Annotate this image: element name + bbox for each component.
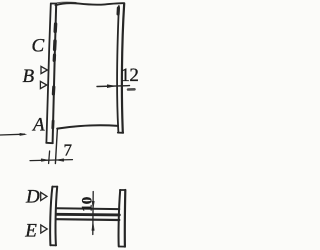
left plate top cap (51, 3, 56, 5)
smudge under 12 (128, 88, 135, 91)
right plate (12mm) left edge (117, 6, 119, 132)
web middle thick line (57, 213, 120, 216)
svg-text:E: E (24, 221, 37, 242)
left flange right edge (56, 187, 58, 246)
leader line for A (0, 133, 25, 136)
weld bead B on left plate (53, 41, 57, 50)
weld symbol triangle D (41, 192, 47, 200)
left plate bottom cap (46, 142, 53, 144)
web bottom line (57, 218, 120, 221)
arrow right of 7 dim (56, 159, 63, 162)
weld bead on left plate y90 (52, 87, 56, 94)
bottom horizontal edge (57, 125, 118, 128)
extension tick left of 7 dim (49, 151, 50, 164)
left plate (7mm) left edge (46, 4, 50, 143)
web top line (57, 207, 120, 210)
svg-text:A: A (31, 115, 45, 136)
right flange left edge (119, 190, 121, 246)
right plate bottom cap (118, 132, 123, 134)
arrow left of 7 dim (41, 159, 48, 162)
weld bead C on left plate (54, 24, 58, 32)
left flange top cap (52, 186, 57, 188)
right flange bottom cap (119, 246, 125, 248)
arrow lower of 10 dim (92, 222, 94, 231)
weld symbol triangle E (41, 225, 47, 233)
weld symbol triangle B upper (41, 66, 47, 73)
arrow upper of 10 dim (92, 201, 94, 208)
left flange bottom cap (50, 244, 56, 246)
svg-text:7: 7 (64, 141, 73, 160)
right plate right edge (122, 3, 124, 132)
weld symbol triangle B lower (40, 81, 46, 88)
weld bead on right plate (116, 8, 120, 14)
svg-text:10: 10 (79, 197, 95, 212)
dimension line 12 (97, 85, 130, 88)
weld bead on left plate y124 (51, 121, 54, 128)
svg-text:12: 12 (121, 65, 139, 86)
right flange top cap (120, 189, 125, 191)
left plate right edge (53, 4, 57, 143)
svg-text:C: C (32, 35, 45, 56)
svg-text:D: D (25, 187, 40, 208)
top horizontal edge (56, 3, 124, 5)
right flange right edge (124, 190, 127, 247)
svg-text:B: B (23, 66, 35, 87)
arrowhead of A leader (20, 133, 27, 135)
extension line down from bottom edge corner (55, 129, 57, 164)
bottom figure: left flange left edge (50, 187, 52, 246)
arrow of 12 dim (107, 85, 115, 88)
dimension line 10 vertical (92, 192, 94, 235)
top edge overdraw stroke (57, 1, 76, 4)
weld bead on left plate y56 (53, 55, 56, 61)
dimension line 7 (30, 160, 73, 161)
